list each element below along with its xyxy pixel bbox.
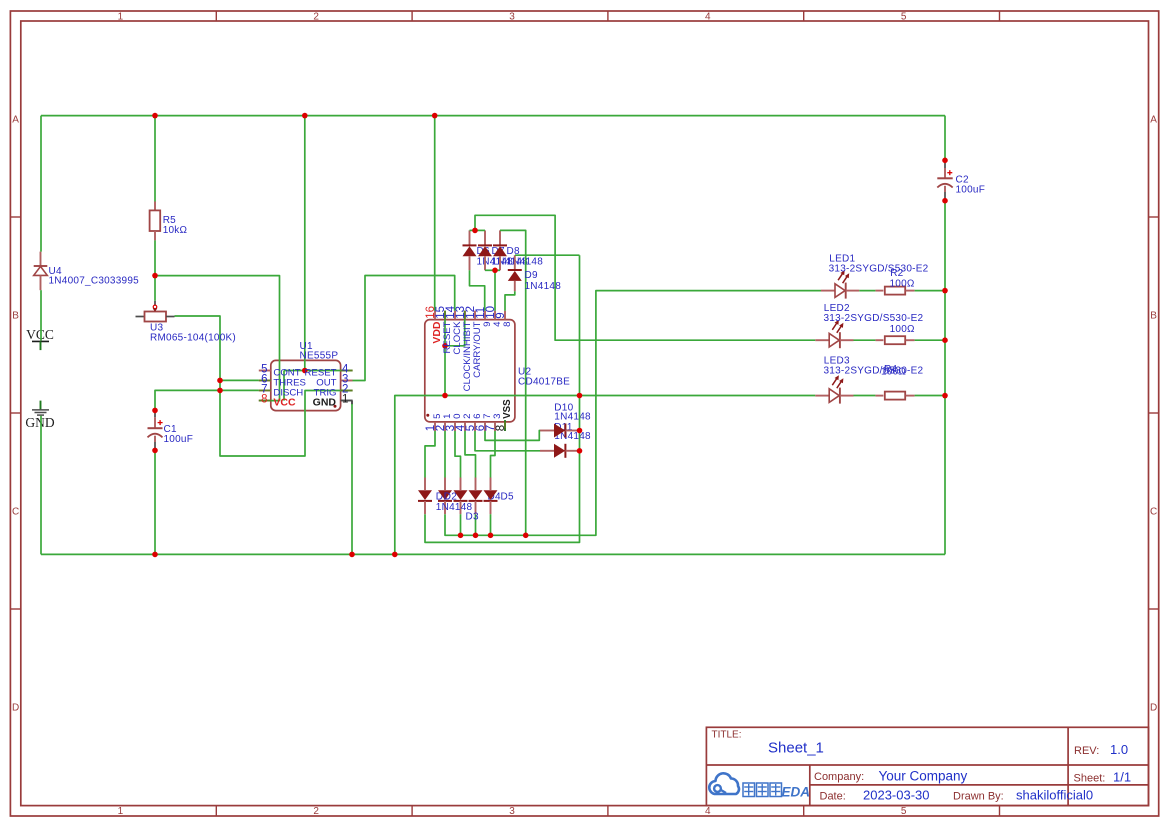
svg-text:C: C [12,507,19,518]
svg-text:8: 8 [261,393,267,405]
svg-text:D: D [1150,703,1157,714]
junction [152,448,158,454]
junction [473,533,479,539]
wire D6 D7 to LED2 row [475,215,815,340]
diode D1 1N4148 [418,478,432,515]
svg-text:Sheet:: Sheet: [1074,772,1106,784]
wire over VCC8 stub [259,400,271,402]
junction [942,288,948,294]
svg-text:313-2SYGD/S530-E2: 313-2SYGD/S530-E2 [829,264,929,275]
wire U1 OUT to U2 CLOCK [353,276,455,381]
svg-text:C: C [1150,507,1157,518]
wire U1 GND pin1 drop [351,404,353,554]
wire R2 to right rail [915,290,945,292]
junction [442,393,448,399]
wire Q2 pin4 to D4 [465,431,476,478]
diode D2 1N4148 [438,478,452,515]
wire R5 bottom to junction [154,240,156,275]
wire D3 bottom [460,514,462,535]
junction [577,393,583,399]
svg-text:TITLE:: TITLE: [712,730,742,741]
svg-text:B: B [12,311,19,322]
svg-text:3: 3 [509,806,515,817]
wire D7-D8 anode link [485,269,500,271]
junction [942,337,948,343]
svg-text:LED2: LED2 [824,303,850,314]
wire top rail to U1 RESET junction [304,116,306,371]
wire GND bottom rail [41,553,945,555]
wire D7D8 to Q4 pin10 [494,270,496,310]
wire Q7 pin6 to D10 [485,431,540,441]
wire D8 top to rail A [500,230,526,535]
svg-text:VSS: VSS [502,399,513,419]
svg-text:Company:: Company: [814,771,864,783]
junction [472,228,478,234]
diode D8 1N4148 [493,230,507,270]
logo JLC EDA [709,773,810,799]
wire junction to U1 VCC pin8 [155,276,280,401]
wire VCC top rail [41,115,945,117]
svg-text:5: 5 [901,806,907,817]
wire left branch to U4 [40,116,42,252]
svg-text:10kΩ: 10kΩ [163,225,188,236]
svg-text:RM065-104(100K): RM065-104(100K) [150,332,236,343]
svg-text:GND: GND [313,397,337,409]
junction [152,408,158,414]
svg-text:D: D [12,703,19,714]
wire Q6 pin5 to D11 [475,431,540,451]
junction [349,552,355,558]
diode U4 1N4007 [34,252,48,291]
wire U4 to VCC flag [40,290,42,340]
svg-text:8: 8 [502,322,513,327]
svg-text:Your Company: Your Company [879,769,968,784]
svg-text:4: 4 [705,806,711,817]
svg-text:2023-03-30: 2023-03-30 [863,788,930,803]
op-amp timer U1 NE555P body [259,360,353,410]
junction [302,113,308,119]
svg-text:A: A [12,115,19,126]
wire GND flag to bottom rail [40,416,42,555]
diode D6 1N4148 [463,230,477,270]
wire THRES-DISCH link [219,380,221,390]
junction [577,428,583,434]
wire over RESET stub [341,370,353,372]
wire D9 anode to Q8 pin9 [505,291,515,310]
counter U2 CD4017BE body [425,311,515,431]
wire RESET to CLOCK/INHIBIT [445,311,465,346]
svg-text:2: 2 [313,11,319,22]
wire Q3 pin7 to D5 [491,431,496,478]
wire R5 top [154,116,156,202]
wire TRIG detour [220,390,353,456]
resistor R3 [875,336,914,344]
wire over DISCH stub [259,389,271,391]
wire C1 bottom to GND rail [154,450,156,554]
svg-text:100Ω: 100Ω [890,278,915,289]
wire U1 RESET row [284,370,353,372]
capacitor C1 [148,410,163,450]
junction [302,368,308,374]
LED2 313-2SYGD/S530-E2 [815,320,853,348]
resistor R5 [150,202,161,241]
wire LED3 mid segment [854,395,876,397]
junction [492,268,498,274]
svg-text:8: 8 [495,425,507,431]
wire top rail to U2 VDD pin16 [434,116,436,311]
LED3 313-2SYGD/S530-E2 [815,375,853,403]
junction [392,552,398,558]
wire over pin13 stub [464,311,466,320]
wire right rail top to C2 [944,116,946,161]
diode D11 1N4148 [540,444,580,458]
svg-text:CD4017BE: CD4017BE [518,377,570,388]
wire RESET to VCC drop [283,371,285,401]
svg-text:313-2SYGD/S530-E2: 313-2SYGD/S530-E2 [824,365,924,376]
junction [152,552,158,558]
capacitor C2 [937,160,952,200]
junction [432,113,438,119]
svg-text:A: A [1150,115,1157,126]
junction [152,273,158,279]
svg-text:CARRY/OUT: CARRY/OUT [472,321,483,377]
svg-text:9: 9 [495,312,507,318]
svg-text:VCC: VCC [273,397,296,409]
wire over VSS stub [504,422,506,428]
junction [458,533,464,539]
wire D1 bottom rail B [425,255,580,542]
junction [577,448,583,454]
svg-text:NE555P: NE555P [300,351,339,362]
junction [488,533,494,539]
svg-text:B: B [1150,311,1157,322]
junction [217,378,223,384]
diode D3 1N4148 [454,478,468,515]
wire D5 bottom [490,514,492,535]
svg-text:D9: D9 [525,270,538,281]
diode D5 1N4148 [484,478,498,515]
svg-text:2: 2 [313,806,319,817]
svg-text:100Ω: 100Ω [881,366,906,377]
wire Q0 pin3 to D3 [455,431,461,478]
wire C1 top to DISCH [155,390,259,410]
wire THRES junction to pin6 [220,379,259,381]
wire LED1 row [445,291,821,536]
power flag VCC [26,327,54,350]
wire over THRES stub [259,379,271,381]
wire Q1 pin2 to D2 [444,431,446,478]
diode D7 1N4148 [478,230,492,270]
wire over pin15 stub [444,311,446,320]
wire right rail C2 to bottom [944,201,946,555]
svg-text:1: 1 [342,393,348,405]
svg-text:GND: GND [25,415,54,430]
power flag GND [25,401,54,431]
wire U2 RESET net vertical [444,311,446,396]
svg-text:VCC: VCC [26,327,54,342]
svg-text:3: 3 [509,11,515,22]
svg-text:100uF: 100uF [164,434,194,445]
wire R3 to right rail [915,339,945,341]
diode D4 1N4148 [469,478,483,515]
svg-text:Date:: Date: [820,790,846,802]
svg-text:EDA: EDA [782,785,811,800]
svg-text:100uF: 100uF [956,185,986,196]
wire VSS stub [504,420,506,431]
wire GND-LED3 long line [395,396,815,555]
resistor R4 [875,392,914,400]
diode D10 1N4148 [540,424,580,438]
svg-text:1/1: 1/1 [1113,769,1131,784]
resistor R2 [875,287,914,295]
svg-text:1N4148: 1N4148 [554,411,591,422]
junction [442,343,448,349]
wire LED1 mid segment [859,290,875,292]
junction [942,158,948,164]
svg-text:5: 5 [901,11,907,22]
wire D4 bottom [475,514,477,535]
svg-text:Sheet_1: Sheet_1 [768,740,824,757]
svg-text:1.0: 1.0 [1110,742,1128,757]
junction [523,533,529,539]
svg-text:313-2SYGD/S530-E2: 313-2SYGD/S530-E2 [824,313,924,324]
svg-text:REV:: REV: [1074,745,1099,757]
svg-text:1: 1 [118,11,124,22]
svg-text:shakilofficial0: shakilofficial0 [1016,788,1093,803]
svg-text:1: 1 [118,806,124,817]
wire over TRIG stub [341,390,353,392]
wire U3 right to THRES [175,316,221,380]
pin 1 marker dot U1 [334,405,337,408]
svg-text:1N4148: 1N4148 [525,281,562,292]
wire junction to U3 wiper [154,276,156,301]
svg-text:Drawn By:: Drawn By: [953,790,1004,802]
wire D6-D7 top link [470,229,486,231]
potentiometer U3 [136,301,175,322]
junction [217,388,223,394]
wire D9 top line [515,254,580,256]
svg-text:D5: D5 [501,491,514,502]
title block [706,727,1148,805]
junction [942,393,948,399]
svg-text:4: 4 [705,11,711,22]
wire Q5 pin1 to D1 [425,431,435,478]
pin 1 marker dot U2 [426,414,429,417]
junction [152,113,158,119]
wire D6 anode to Q9 pin11 [470,270,485,310]
svg-text:D3: D3 [466,511,479,522]
junction [942,198,948,204]
svg-text:100Ω: 100Ω [890,324,915,335]
wire R4 to right rail [915,395,945,397]
wire LED2 mid segment [854,339,876,341]
diode D9 1N4148 [508,255,522,291]
svg-text:1N4007_C3033995: 1N4007_C3033995 [49,276,140,287]
LED1 313-2SYGD/S530-E2 [821,270,859,298]
